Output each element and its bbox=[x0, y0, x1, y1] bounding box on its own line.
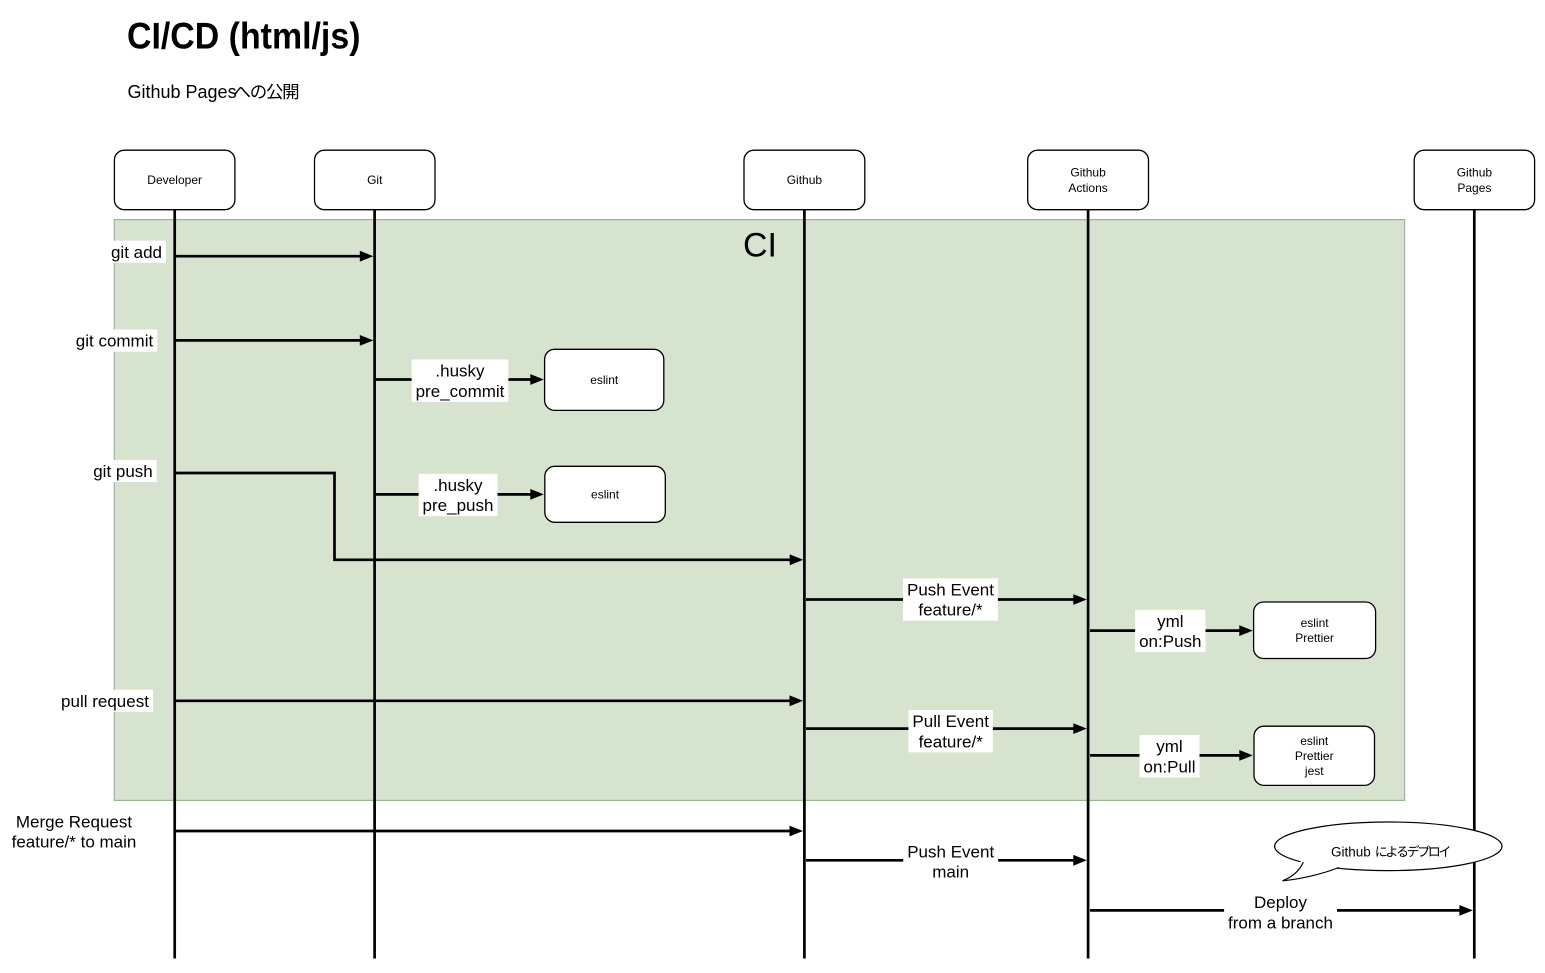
svg-text:Deploy: Deploy bbox=[1254, 893, 1307, 912]
wire: git push step (Developer to Github) bbox=[176, 473, 803, 565]
svg-text:Push Event: Push Event bbox=[907, 842, 994, 861]
svg-text:CI/CD (html/js): CI/CD (html/js) bbox=[127, 16, 361, 57]
svg-text:Merge Request: Merge Request bbox=[16, 812, 133, 831]
svg-text:yml: yml bbox=[1156, 737, 1182, 756]
svg-text:feature/* to main: feature/* to main bbox=[12, 833, 137, 852]
label: Merge Request feature/* to main bbox=[8, 810, 141, 852]
svg-text:git commit: git commit bbox=[76, 332, 154, 351]
actor box Developer bbox=[114, 150, 234, 210]
label: Push Event feature/* bbox=[903, 578, 998, 620]
svg-text:eslint: eslint bbox=[1301, 616, 1330, 630]
label: .husky pre_commit bbox=[412, 360, 509, 402]
box eslint (pre_commit) bbox=[545, 349, 664, 410]
box eslint Prettier bbox=[1254, 602, 1376, 659]
svg-text:jest: jest bbox=[1304, 764, 1324, 778]
svg-text:feature/*: feature/* bbox=[918, 601, 983, 620]
CI frame (green region) bbox=[114, 220, 1404, 801]
arrow: Deploy from a branch (Actions to Pages) bbox=[1090, 905, 1473, 916]
svg-text:Prettier: Prettier bbox=[1295, 631, 1334, 645]
svg-text:CI: CI bbox=[743, 227, 777, 265]
arrow: .husky pre_push (Git to eslint) bbox=[376, 489, 544, 500]
label: Pull Event feature/* bbox=[908, 710, 993, 752]
actor box Github bbox=[744, 150, 865, 210]
lifeline Developer bbox=[173, 210, 176, 959]
svg-text:Pages: Pages bbox=[1457, 181, 1491, 195]
label: git push bbox=[89, 460, 157, 482]
svg-text:.husky: .husky bbox=[435, 362, 485, 381]
arrow: Push Event feature/* (Github to Actions) bbox=[806, 594, 1087, 605]
speech bubble: Github deploy callout bbox=[1275, 822, 1502, 881]
arrow: Merge Request (Developer to Github) bbox=[176, 826, 803, 837]
svg-text:Github: Github bbox=[1457, 166, 1493, 180]
label: git add bbox=[107, 241, 166, 263]
svg-text:Actions: Actions bbox=[1068, 181, 1107, 195]
arrow: yml on:Pull (Actions to eslint Prettier jest) bbox=[1090, 750, 1253, 761]
svg-text:Pull Event: Pull Event bbox=[912, 712, 989, 731]
label: git commit bbox=[72, 330, 158, 352]
box eslint (pre_push) bbox=[545, 466, 666, 522]
svg-text:pre_push: pre_push bbox=[423, 496, 494, 515]
svg-text:Github: Github bbox=[1070, 166, 1106, 180]
svg-text:feature/*: feature/* bbox=[919, 732, 984, 751]
label: Push Event main bbox=[903, 840, 998, 882]
svg-text:.husky: .husky bbox=[433, 476, 483, 495]
label: pull request bbox=[57, 690, 153, 712]
arrow: Push Event main (Github to Actions) bbox=[806, 855, 1087, 866]
actor box Github Actions bbox=[1028, 150, 1149, 210]
svg-text:eslint: eslint bbox=[590, 373, 619, 387]
label: yml on:Push bbox=[1135, 610, 1205, 652]
svg-text:on:Pull: on:Pull bbox=[1144, 757, 1196, 776]
svg-text:main: main bbox=[932, 863, 969, 882]
lifeline GithubPages bbox=[1473, 210, 1476, 959]
svg-text:pre_commit: pre_commit bbox=[416, 382, 505, 401]
svg-text:yml: yml bbox=[1157, 612, 1183, 631]
arrow: yml on:Push (Actions to eslint Prettier) bbox=[1090, 625, 1253, 636]
lifeline GithubActions bbox=[1087, 210, 1090, 959]
svg-text:Github: Github bbox=[1331, 844, 1371, 859]
svg-text:Developer: Developer bbox=[147, 173, 202, 187]
arrow: git commit (Developer to Git) bbox=[176, 335, 373, 346]
label: .husky pre_push bbox=[419, 474, 498, 516]
actor box Github Pages bbox=[1414, 150, 1534, 210]
svg-text:eslint: eslint bbox=[591, 488, 620, 502]
svg-text:Github: Github bbox=[787, 173, 823, 187]
svg-text:Push Event: Push Event bbox=[907, 580, 994, 599]
svg-text:eslint: eslint bbox=[1300, 734, 1329, 748]
svg-text:Git: Git bbox=[367, 173, 383, 187]
svg-text:Github Pages: Github Pages bbox=[128, 82, 237, 102]
actor box Git bbox=[315, 150, 436, 210]
svg-text:git push: git push bbox=[93, 462, 153, 481]
arrow: Pull Event feature/* (Github to Actions) bbox=[806, 723, 1087, 734]
arrow: pull request (Developer to Github) bbox=[176, 695, 803, 706]
arrow: git add (Developer to Git) bbox=[176, 251, 373, 262]
svg-text:on:Push: on:Push bbox=[1139, 632, 1201, 651]
label: yml on:Pull bbox=[1140, 735, 1200, 777]
label: Deploy from a branch bbox=[1224, 891, 1337, 933]
lifeline Git bbox=[373, 210, 376, 959]
subtitle: Github Pages + Japanese bbox=[128, 82, 299, 102]
box eslint Prettier jest bbox=[1254, 726, 1375, 785]
svg-text:Prettier: Prettier bbox=[1295, 749, 1334, 763]
arrow: .husky pre_commit (Git to eslint) bbox=[376, 374, 544, 385]
svg-text:from a branch: from a branch bbox=[1228, 913, 1333, 932]
lifeline Github bbox=[803, 210, 806, 959]
svg-text:pull request: pull request bbox=[61, 692, 149, 711]
svg-text:git add: git add bbox=[111, 243, 162, 262]
